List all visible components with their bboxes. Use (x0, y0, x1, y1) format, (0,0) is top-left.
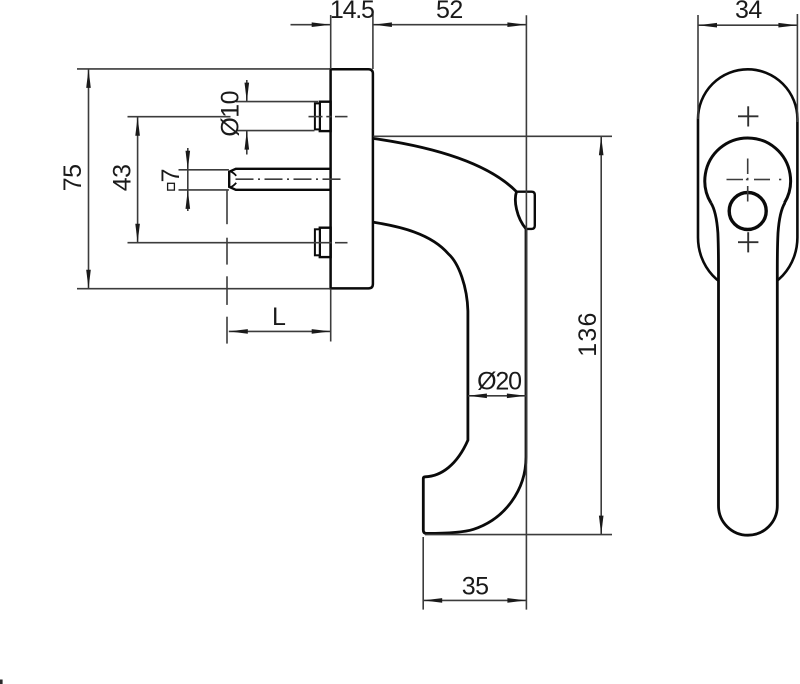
svg-text:Ø20: Ø20 (477, 368, 521, 396)
svg-text:Ø10: Ø10 (217, 91, 245, 137)
svg-text:34: 34 (735, 0, 762, 24)
svg-text:136: 136 (574, 311, 602, 356)
svg-text:14.5: 14.5 (330, 0, 374, 24)
svg-text:75: 75 (59, 164, 87, 191)
svg-text:35: 35 (462, 573, 489, 601)
svg-text:52: 52 (436, 0, 463, 24)
svg-text:43: 43 (108, 164, 136, 191)
svg-text:L: L (272, 303, 286, 331)
svg-text:7: 7 (157, 169, 185, 182)
